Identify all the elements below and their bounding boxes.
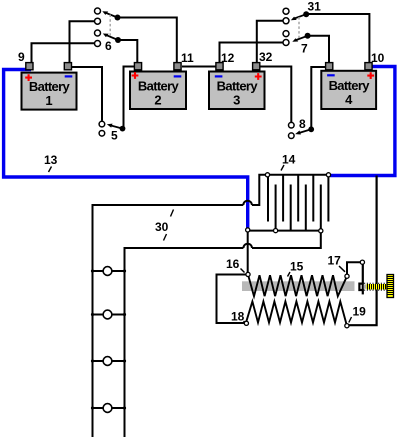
resistor 14 top comb fingers <box>268 175 328 222</box>
resistor 14 top rail <box>268 174 329 176</box>
wire: battery3 left terminal up to switch 7 lower contact <box>220 43 287 64</box>
wire: continues left to ladder left rail and down <box>93 205 244 437</box>
node: resistor 14 bottom mid <box>274 229 278 233</box>
switch contact 7 upper <box>283 31 289 37</box>
wire: node 17 up and right to screw terminal <box>347 262 363 276</box>
node 18 <box>244 321 248 325</box>
wire: blue-end node down to node 16 <box>247 230 249 273</box>
svg-text:1: 1 <box>45 93 52 108</box>
mechanical link right DPDT <box>298 17 300 38</box>
ladder lamp circle 1 <box>103 267 112 276</box>
node: resistor 14 top left <box>265 173 269 177</box>
svg-text:Battery: Battery <box>29 79 71 94</box>
svg-text:31: 31 <box>308 0 322 14</box>
svg-text:14: 14 <box>282 153 296 167</box>
switch contact 31 lower <box>283 18 289 24</box>
wire: battery2 left terminal left and down to switch 5 pivot <box>124 67 135 129</box>
node: resistor 14 bottom right <box>319 229 323 233</box>
switch arm 6 <box>105 35 118 40</box>
coil 18 zigzag <box>246 302 347 326</box>
wire: switch 8 pivot up and right to battery4 left terminal <box>311 67 326 129</box>
switch arm 31 <box>293 14 306 19</box>
label 30 <box>155 210 174 241</box>
svg-text:17: 17 <box>328 253 342 267</box>
solenoid core bar <box>242 281 355 291</box>
label 17 <box>328 253 346 272</box>
coil 15 zigzag <box>248 274 347 296</box>
label 15 <box>288 259 304 276</box>
switch contact 5 upper <box>99 121 105 127</box>
wire: screw terminal down through wiper <box>362 262 364 294</box>
switch arm 7 <box>295 36 308 41</box>
svg-text:7: 7 <box>301 42 308 56</box>
node 19 <box>345 324 349 328</box>
ladder rung 3 <box>93 360 125 362</box>
ladder rung 2 <box>93 314 125 316</box>
switch contact 5 lower <box>99 131 105 137</box>
switch contact 8 lower <box>289 133 295 139</box>
switch contact 31 upper <box>283 8 289 14</box>
switch contact (top pair upper) <box>95 8 101 14</box>
node: blue wire end / resistor 14 bottom left <box>246 228 250 232</box>
switch contact 6 upper <box>95 30 101 36</box>
wire: battery1 left terminal up to switch 6 lower contact <box>32 43 98 63</box>
svg-text:10: 10 <box>371 51 385 65</box>
svg-text:18: 18 <box>231 310 245 324</box>
switch pivot dot (top pair) <box>115 15 121 21</box>
wire blue left: battery1 + terminal to node under resistor 14 <box>4 70 248 229</box>
svg-text:8: 8 <box>299 117 306 131</box>
ladder lamp circle 4 <box>103 404 112 413</box>
node: resistor 14 top right <box>326 173 330 177</box>
wire hop over blue wire <box>243 201 252 205</box>
resistor 14 bottom comb fingers <box>276 185 321 231</box>
wire: resistor 14 left node down-left to ladder left rail <box>252 175 268 205</box>
switch contact 7 lower <box>283 40 289 46</box>
switch pivot dot 6 <box>115 37 121 43</box>
svg-text:12: 12 <box>221 51 235 65</box>
switch contact (top pair lower) <box>95 18 101 24</box>
label 18 <box>231 310 245 324</box>
ladder lamp circle 2 <box>103 310 112 319</box>
wire: battery1 right terminal right and down to switch 5 top contact <box>72 67 103 121</box>
wire 30: resistor 14 bottom right node down and left <box>252 231 321 248</box>
ladder rung 1 <box>93 270 125 272</box>
resistor 14 bottom rail <box>248 230 321 232</box>
switch contact 6 lower <box>95 41 101 47</box>
switch pivot dot 8 <box>308 126 314 132</box>
battery B3 <box>209 63 265 109</box>
svg-text:13: 13 <box>44 153 58 167</box>
svg-text:Battery: Battery <box>329 78 371 93</box>
svg-text:9: 9 <box>18 50 25 64</box>
battery B4 <box>321 63 376 109</box>
node 17 <box>345 274 349 278</box>
svg-text:Battery: Battery <box>217 79 259 94</box>
label 16 <box>226 257 245 273</box>
wire: top switch pivot to battery2 right terminal <box>118 18 177 64</box>
wire hop over vertical wire <box>243 244 252 248</box>
svg-text:3: 3 <box>233 93 240 108</box>
wire: right frame from blue wire down to node 19 <box>347 176 377 326</box>
svg-text:15: 15 <box>290 259 304 273</box>
node: screw terminal <box>360 260 364 264</box>
label 19 <box>349 305 366 323</box>
mechanical link left DPDT <box>109 15 111 38</box>
svg-text:16: 16 <box>226 257 240 271</box>
screw head (yellow knob) <box>387 275 394 298</box>
node 16 <box>246 272 250 276</box>
wire: switch 7 pivot to battery4 left terminal <box>308 36 329 63</box>
svg-text:32: 32 <box>259 50 273 64</box>
svg-text:11: 11 <box>181 51 194 65</box>
wire: left bracket node 16 to node 18 <box>217 275 247 324</box>
ladder rung junction dots <box>91 269 126 409</box>
switch arm 8 <box>298 129 311 133</box>
label 14 <box>281 153 296 171</box>
wire: battery2 right terminal to battery3 left terminal <box>182 66 216 68</box>
svg-text:4: 4 <box>345 92 353 107</box>
wire blue right: battery4 + terminal to right node of resistor 14 <box>330 67 395 176</box>
svg-text:6: 6 <box>105 39 112 53</box>
wiper contact bracket <box>359 284 363 290</box>
switch contact 8 upper <box>289 122 295 128</box>
ladder lamp circle 3 <box>103 357 112 366</box>
screw shaft thread (yellow) <box>364 283 387 290</box>
wire: battery1 right terminal up to top switch lower contact <box>70 21 98 63</box>
switch arm (top pair) <box>105 12 118 17</box>
svg-text:2: 2 <box>154 93 161 108</box>
switch pivot dot 31 <box>303 11 309 17</box>
wire: continues left to ladder right rail and down <box>125 248 244 437</box>
screw shaft unthreaded stub <box>364 284 368 288</box>
ladder rung 4 <box>93 407 125 409</box>
battery B2 <box>130 63 186 109</box>
wire: switch 31 lower contact to battery3 right terminal 32 <box>257 21 286 63</box>
battery B1 <box>22 63 77 110</box>
wire: terminal 32 right and down to switch 8 top contact <box>260 67 292 123</box>
wire: switch 31 pivot to battery4 right terminal 10 <box>306 14 369 63</box>
svg-text:30: 30 <box>155 220 169 234</box>
switch pivot dot 5 <box>120 126 126 132</box>
svg-text:19: 19 <box>353 305 367 319</box>
label 13 <box>44 153 58 172</box>
switch pivot dot 7 <box>305 33 311 39</box>
wire: switch 6 pivot to battery2 left terminal <box>118 40 137 63</box>
switch arm 5 <box>110 125 123 128</box>
svg-text:5: 5 <box>111 129 118 143</box>
svg-text:Battery: Battery <box>138 79 180 94</box>
